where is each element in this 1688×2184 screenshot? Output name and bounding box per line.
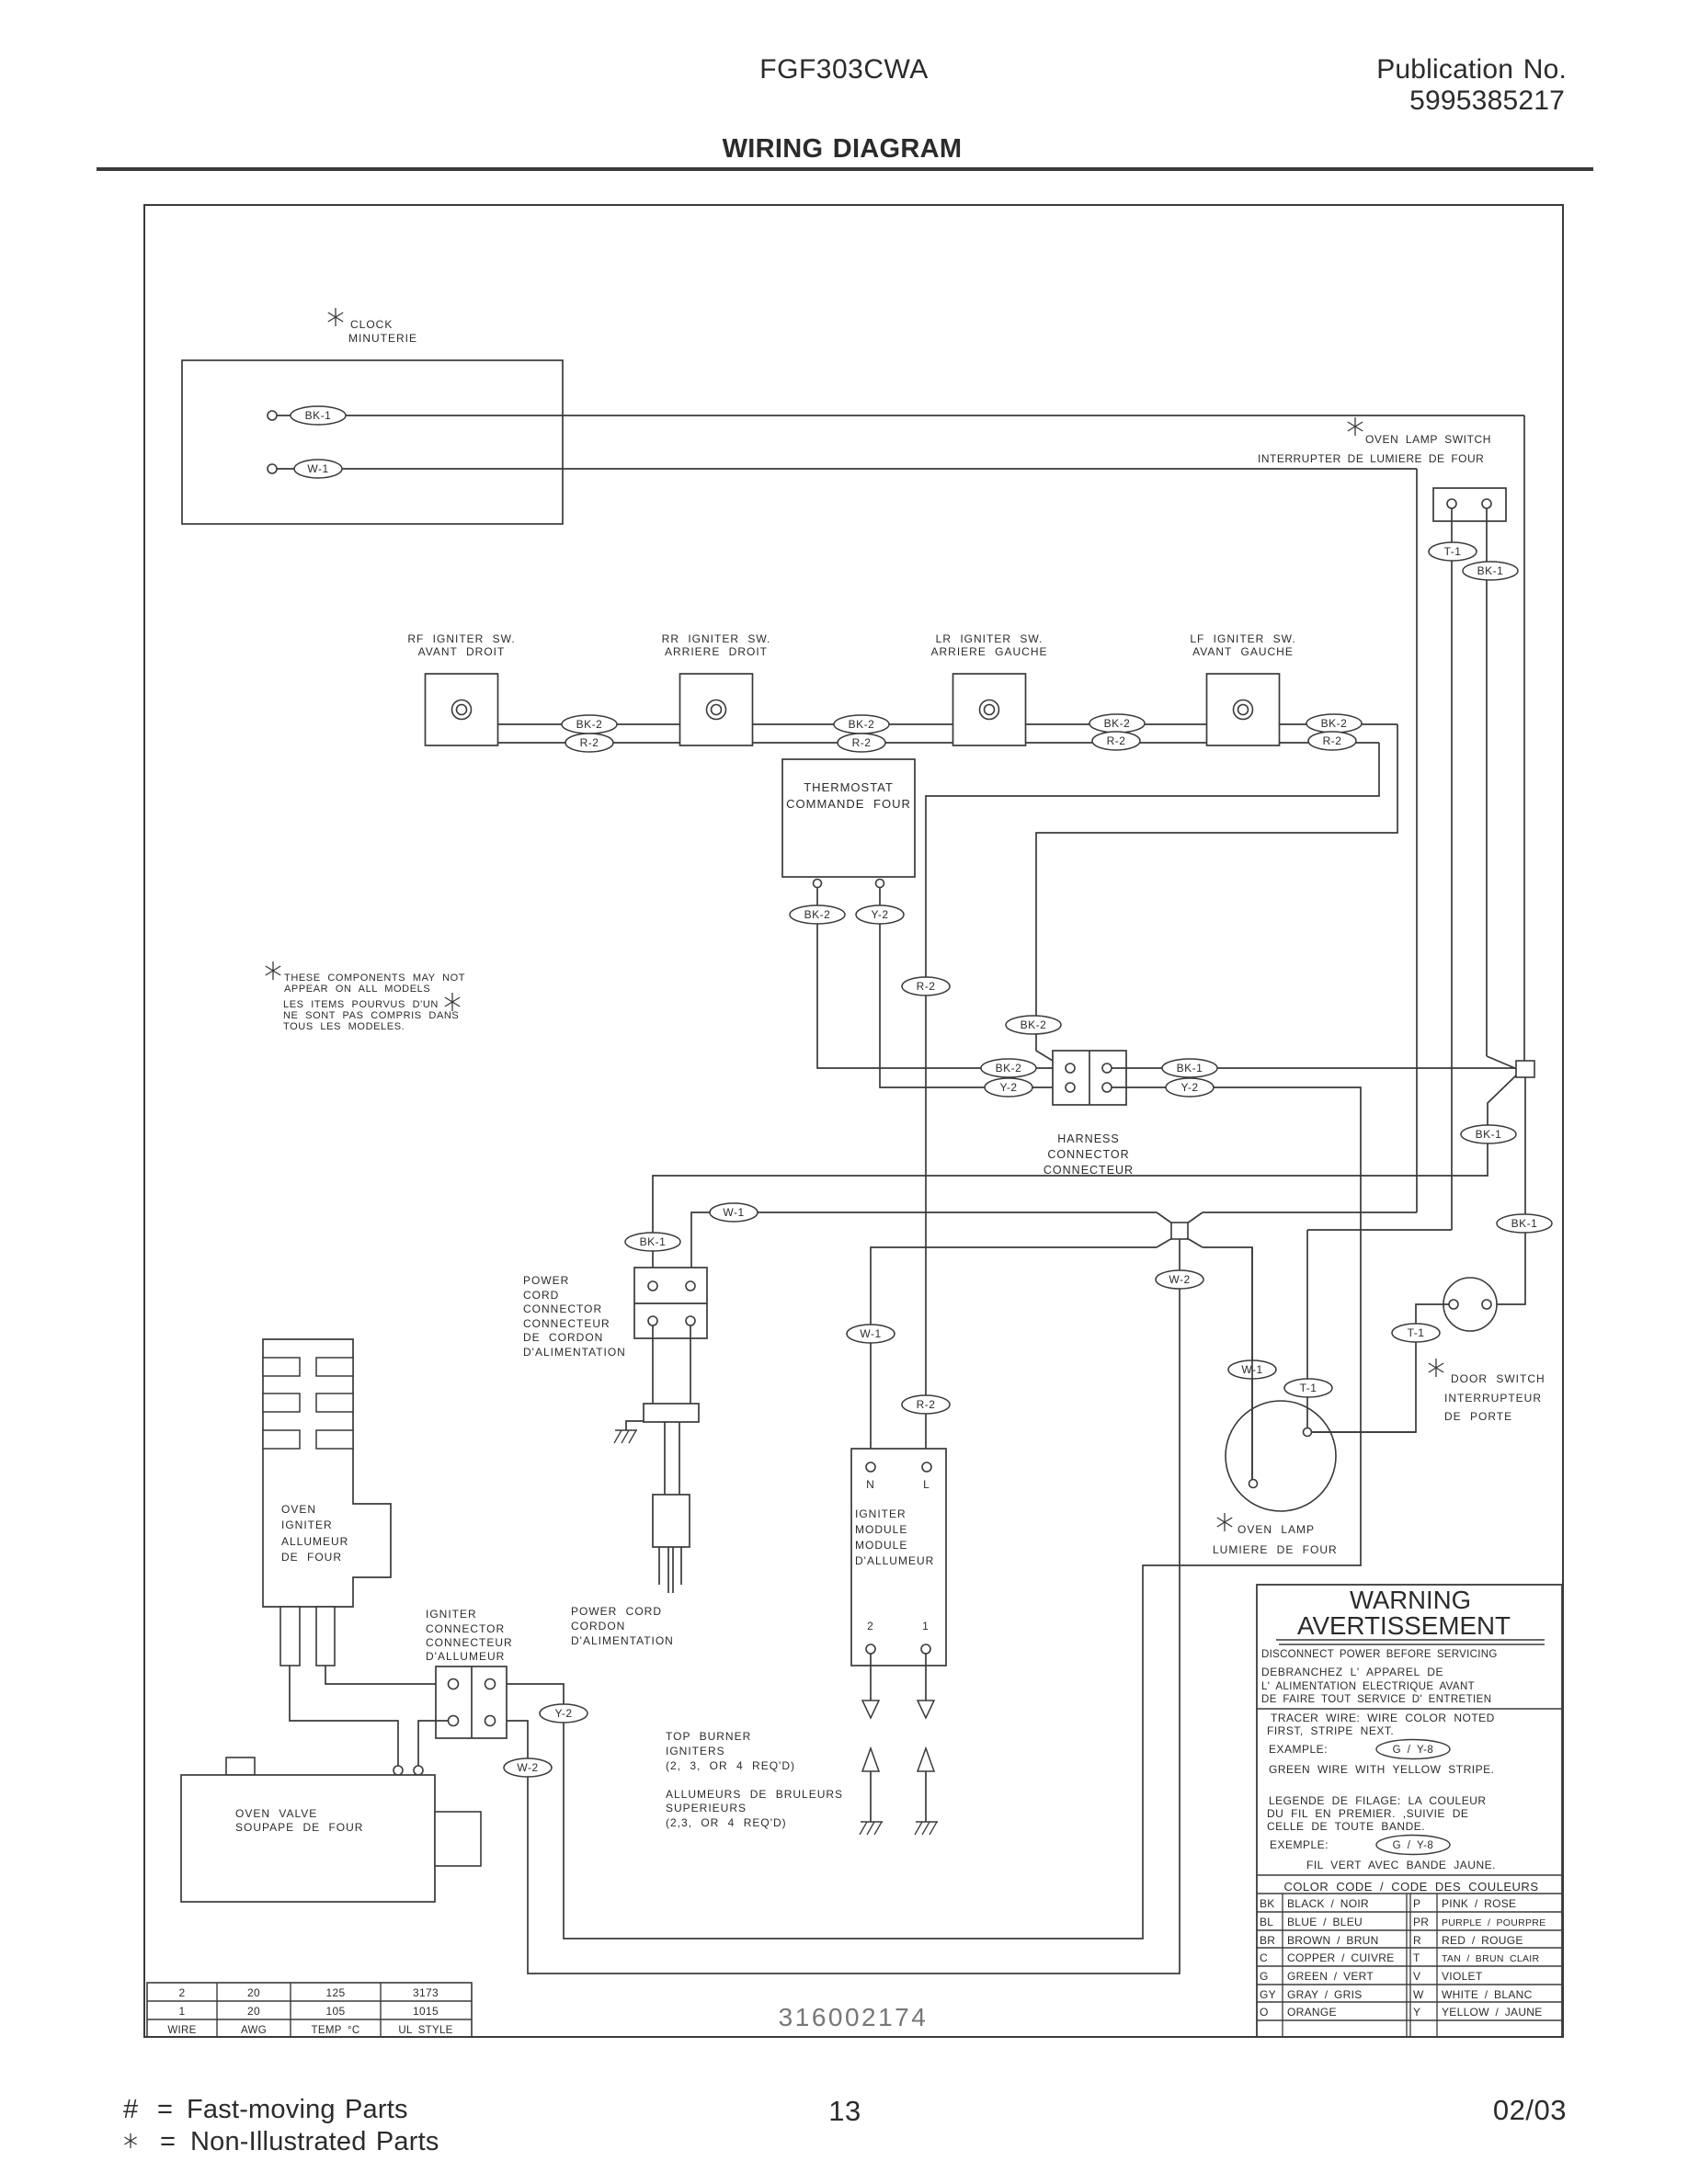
oven igniter terminals [280, 1607, 300, 1666]
svg-text:Y-2: Y-2 [999, 1081, 1017, 1094]
wire label R-2 (RR-LR gap) [838, 734, 885, 752]
svg-text:CONNECTEUR: CONNECTEUR [426, 1636, 513, 1649]
wire BK-1 from clock to junction J2 (top run) [277, 415, 1524, 416]
svg-text:1: 1 [922, 1620, 930, 1632]
svg-text:Fast-moving Parts: Fast-moving Parts [187, 2095, 408, 2124]
svg-text:#: # [123, 2095, 139, 2124]
wire label T-1 (door switch) [1392, 1324, 1440, 1342]
svg-text:5995385217: 5995385217 [1409, 85, 1565, 116]
wire label BK-2 (drop to harness) [1006, 1016, 1061, 1034]
oven lamp terminal left [1251, 1247, 1253, 1480]
wire label BK-2 (RF-RR gap) [562, 715, 617, 734]
power cord grommet [644, 1404, 699, 1422]
svg-text:G / Y-8: G / Y-8 [1393, 1840, 1434, 1851]
svg-text:C: C [1260, 1951, 1268, 1964]
wire W-1 junction J1 to oven lamp [1187, 1238, 1203, 1247]
svg-text:APPEAR ON ALL MODELS: APPEAR ON ALL MODELS [284, 984, 430, 995]
harness connector box [1053, 1051, 1126, 1105]
svg-text:1015: 1015 [413, 2005, 439, 2018]
svg-text:CONNECTOR: CONNECTOR [426, 1622, 505, 1635]
svg-text:INTERRUPTEUR: INTERRUPTEUR [1444, 1392, 1542, 1405]
tracer example oval 1 [1376, 1740, 1450, 1759]
svg-text:SOUPAPE DE FOUR: SOUPAPE DE FOUR [235, 1821, 363, 1834]
svg-text:CONNECTOR: CONNECTOR [1047, 1148, 1129, 1161]
svg-text:P: P [1413, 1897, 1420, 1910]
wire label T-1 (at oven lamp) [1284, 1379, 1332, 1397]
svg-text:02/03: 02/03 [1493, 2094, 1567, 2126]
chassis ground symbol (power cord) [615, 1429, 637, 1431]
wire label BK-2 (thermostat) [790, 905, 845, 924]
svg-text:GREEN WIRE WITH YELLOW STRIPE.: GREEN WIRE WITH YELLOW STRIPE. [1269, 1763, 1494, 1776]
ground lead from grommet [626, 1421, 644, 1430]
igniter switch LR box [953, 674, 1026, 745]
wire label W-1 (clock) [294, 460, 342, 478]
wire BK-2 thermostat to harness connector [817, 888, 1065, 1068]
svg-text:LR IGNITER SW.: LR IGNITER SW. [936, 632, 1044, 645]
wire label R-2 (after LF) [1308, 732, 1356, 750]
svg-text:ALLUMEURS DE BRULEURS: ALLUMEURS DE BRULEURS [666, 1788, 843, 1801]
svg-text:D'ALIMENTATION: D'ALIMENTATION [571, 1634, 674, 1647]
wire T-1 door switch to oven lamp [1312, 1304, 1449, 1432]
svg-text:LF IGNITER SW.: LF IGNITER SW. [1190, 632, 1295, 645]
svg-text:CORDON: CORDON [571, 1620, 625, 1632]
svg-text:FIRST, STRIPE NEXT.: FIRST, STRIPE NEXT. [1267, 1724, 1394, 1737]
svg-text:TEMP °C: TEMP °C [312, 2025, 360, 2036]
svg-text:DE FOUR: DE FOUR [281, 1551, 342, 1564]
svg-text:DE FAIRE TOUT SERVICE D' ENTRE: DE FAIRE TOUT SERVICE D' ENTRETIEN [1261, 1694, 1491, 1705]
svg-text:2: 2 [867, 1620, 874, 1632]
oven lamp bulb [1226, 1401, 1336, 1511]
svg-text:BK-1: BK-1 [640, 1235, 667, 1248]
svg-text:D'ALLUMEUR: D'ALLUMEUR [855, 1554, 934, 1567]
door switch pin right [1482, 1300, 1491, 1309]
harness connector pins [1066, 1064, 1075, 1073]
svg-text:YELLOW / JAUNE: YELLOW / JAUNE [1442, 2006, 1543, 2019]
clock pin W-1 [268, 464, 277, 473]
power cord plug [653, 1495, 690, 1547]
oven valve side port [435, 1812, 481, 1866]
wire oven igniter left terminal to oven valve [290, 1666, 398, 1766]
wire label W-1 (igniter module) [847, 1325, 895, 1343]
svg-text:BK: BK [1260, 1897, 1275, 1910]
svg-text:COMMANDE FOUR: COMMANDE FOUR [786, 797, 911, 811]
svg-text:GY: GY [1260, 1988, 1276, 2001]
color code table header [1257, 1874, 1562, 1876]
svg-text:MODULE: MODULE [855, 1539, 907, 1552]
oven lamp switch label [1348, 417, 1363, 436]
svg-text:WARNING: WARNING [1350, 1586, 1471, 1614]
svg-text:BLUE / BLEU: BLUE / BLEU [1287, 1916, 1363, 1928]
svg-text:BK-2: BK-2 [996, 1062, 1022, 1075]
wire BK-2 chain across igniter switches to harness connector [498, 723, 680, 725]
svg-text:RED / ROUGE: RED / ROUGE [1442, 1934, 1523, 1947]
oven valve box [181, 1775, 435, 1902]
svg-text:BK-2: BK-2 [1021, 1018, 1047, 1031]
svg-text:GREEN / VERT: GREEN / VERT [1287, 1970, 1374, 1983]
svg-text:RF IGNITER SW.: RF IGNITER SW. [407, 632, 515, 645]
svg-text:BK-1: BK-1 [1511, 1217, 1538, 1230]
wire Y-2 harness down and around to igniter connector [495, 1087, 1361, 1939]
wire W-1 junction J1 to igniter module N [1157, 1238, 1172, 1247]
wire W-1 junction J1 to clock drop [1187, 1212, 1203, 1223]
oven lamp switch pin right [1482, 499, 1491, 508]
top burner igniter 1 (arrow up, grounded) [918, 1748, 934, 1771]
wire label BK-2 (LR-LF gap) [1089, 714, 1145, 733]
svg-text:(2, 3, OR 4 REQ'D): (2, 3, OR 4 REQ'D) [666, 1759, 795, 1772]
clock component label [328, 308, 343, 326]
svg-text:PINK / ROSE: PINK / ROSE [1442, 1897, 1516, 1910]
wire label R-2 (LR-LF gap) [1092, 732, 1140, 750]
svg-text:WIRING DIAGRAM: WIRING DIAGRAM [723, 134, 963, 164]
svg-text:LUMIERE DE FOUR: LUMIERE DE FOUR [1213, 1543, 1338, 1556]
svg-text:COPPER / CUIVRE: COPPER / CUIVRE [1287, 1951, 1395, 1964]
svg-text:W-2: W-2 [517, 1761, 538, 1774]
igniter switch LF contact [1234, 700, 1253, 720]
svg-text:THESE COMPONENTS MAY NOT: THESE COMPONENTS MAY NOT [284, 973, 465, 984]
svg-text:D'ALIMENTATION: D'ALIMENTATION [523, 1346, 626, 1359]
svg-text:IGNITER: IGNITER [426, 1608, 477, 1621]
svg-text:TAN / BRUN CLAIR: TAN / BRUN CLAIR [1442, 1953, 1539, 1964]
oven valve terminal right [414, 1766, 423, 1775]
svg-text:Y-2: Y-2 [871, 908, 888, 921]
svg-text:R: R [1413, 1934, 1421, 1947]
wire BK-1 junction J2 down-left to power cord connector [653, 1075, 1516, 1281]
igniter switch RF box [426, 674, 498, 745]
wire W-2 junction J1 down and around to igniter connector [495, 1239, 1180, 1974]
svg-text:R-2: R-2 [1323, 734, 1342, 747]
igniter switch RR contact [707, 700, 726, 720]
svg-text:2: 2 [179, 1986, 186, 1999]
svg-text:DOOR SWITCH: DOOR SWITCH [1451, 1372, 1545, 1385]
svg-text:20: 20 [247, 2005, 260, 2018]
diagram border frame [144, 205, 1563, 2037]
svg-text:L: L [923, 1478, 930, 1491]
door switch body [1443, 1278, 1497, 1331]
svg-text:AVERTISSEMENT: AVERTISSEMENT [1297, 1611, 1511, 1640]
oven lamp switch pin left [1447, 499, 1456, 508]
svg-text:CORD: CORD [523, 1289, 559, 1302]
svg-text:W-1: W-1 [307, 462, 328, 475]
spark output lead 1 with arrow [925, 1654, 927, 1701]
wire label BK-1 (lamp switch) [1463, 562, 1518, 580]
oven valve top boss [226, 1757, 255, 1775]
svg-text:VIOLET: VIOLET [1442, 1970, 1483, 1983]
svg-text:FGF303CWA: FGF303CWA [759, 54, 928, 85]
svg-text:20: 20 [247, 1986, 260, 1999]
svg-text:R-2: R-2 [917, 980, 936, 993]
svg-text:PURPLE / POURPRE: PURPLE / POURPRE [1442, 1917, 1546, 1928]
svg-text:Publication No.: Publication No. [1376, 54, 1567, 85]
svg-text:FIL VERT AVEC BANDE JAUNE.: FIL VERT AVEC BANDE JAUNE. [1306, 1859, 1496, 1871]
svg-text:TOP BURNER: TOP BURNER [666, 1730, 751, 1743]
svg-text:OVEN LAMP SWITCH: OVEN LAMP SWITCH [1365, 433, 1491, 446]
igniter connector pins [449, 1679, 459, 1689]
power cord cable [664, 1422, 666, 1495]
oven lamp switch box [1433, 488, 1506, 521]
svg-text:BLACK / NOIR: BLACK / NOIR [1287, 1897, 1369, 1910]
svg-text:BK-1: BK-1 [305, 409, 332, 422]
svg-text:COLOR CODE / CODE DES COULEURS: COLOR CODE / CODE DES COULEURS [1284, 1880, 1539, 1894]
svg-text:T-1: T-1 [1300, 1382, 1317, 1394]
svg-text:ARRIERE DROIT: ARRIERE DROIT [665, 645, 768, 658]
wire Y-2 thermostat to harness connector [880, 888, 1065, 1087]
svg-text:EXAMPLE:: EXAMPLE: [1269, 1743, 1328, 1756]
svg-text:D'ALLUMEUR: D'ALLUMEUR [426, 1650, 505, 1663]
svg-text:316002174: 316002174 [779, 2003, 929, 2031]
door switch label [1429, 1359, 1443, 1377]
svg-text:DISCONNECT POWER BEFORE SERVIC: DISCONNECT POWER BEFORE SERVICING [1261, 1649, 1498, 1660]
wire oven igniter right terminal to igniter connector [325, 1666, 448, 1684]
wire label BK-1 (door switch) [1497, 1214, 1552, 1233]
wire label BK-1 (to power cord) [625, 1233, 680, 1251]
wire igniter connector to oven valve [418, 1721, 448, 1766]
svg-text:BL: BL [1260, 1916, 1273, 1928]
thermostat box [782, 759, 915, 877]
wire label BK-1 (harness right) [1162, 1059, 1217, 1077]
top burner igniter 2 (arrow up, grounded) [862, 1748, 879, 1771]
note: components may not appear on all models [266, 961, 280, 980]
svg-text:CLOCK: CLOCK [350, 318, 393, 331]
svg-text:INTERRUPTER DE LUMIERE DE FOUR: INTERRUPTER DE LUMIERE DE FOUR [1258, 452, 1484, 465]
svg-text:Y-2: Y-2 [554, 1707, 572, 1720]
wire label BK-2 (into harness pin) [981, 1059, 1036, 1077]
wire label BK-1 (below J2) [1461, 1125, 1516, 1143]
igniter switch LR contact [980, 700, 999, 720]
svg-text:IGNITER: IGNITER [281, 1519, 333, 1531]
svg-text:BR: BR [1260, 1934, 1275, 1947]
svg-text:OVEN: OVEN [281, 1503, 316, 1516]
svg-text:HARNESS: HARNESS [1057, 1132, 1119, 1145]
svg-text:W-2: W-2 [1169, 1273, 1190, 1286]
svg-text:T-1: T-1 [1444, 545, 1462, 558]
svg-text:BK-1: BK-1 [1476, 1128, 1502, 1141]
svg-text:TRACER WIRE: WIRE COLOR NOT: TRACER WIRE: WIRE COLOR NOTED [1271, 1712, 1495, 1724]
svg-text:1: 1 [179, 2005, 186, 2018]
svg-text:T: T [1413, 1951, 1420, 1964]
power cord leads [652, 1325, 654, 1404]
svg-text:ARRIERE GAUCHE: ARRIERE GAUCHE [930, 645, 1047, 658]
svg-text:BK-2: BK-2 [576, 718, 603, 731]
svg-text:BK-1: BK-1 [1177, 1062, 1203, 1075]
svg-text:CELLE DE TOUTE BANDE.: CELLE DE TOUTE BANDE. [1267, 1820, 1425, 1833]
wire label R-2 (igniter module) [902, 1395, 950, 1414]
wire label T-1 (lamp switch) [1429, 542, 1477, 561]
svg-text:WIRE: WIRE [167, 2025, 196, 2036]
svg-text:BK-1: BK-1 [1477, 564, 1504, 577]
oven igniter slots [263, 1358, 300, 1376]
svg-text:R-2: R-2 [1107, 734, 1126, 747]
wire label R-2 (long drop) [902, 977, 950, 995]
igniter switch RR box [680, 674, 753, 745]
svg-text:W-1: W-1 [723, 1206, 744, 1219]
svg-text:EXEMPLE:: EXEMPLE: [1270, 1838, 1329, 1851]
wire spec table [147, 1983, 472, 2037]
door switch pin left [1449, 1300, 1458, 1309]
thermostat pin right [876, 880, 884, 888]
svg-text:IGNITERS: IGNITERS [666, 1745, 725, 1757]
oven igniter body [263, 1339, 391, 1607]
svg-text:LEGENDE DE FILAGE: LA COULE: LEGENDE DE FILAGE: LA COULEUR [1269, 1794, 1487, 1807]
junction J1 splice block [1171, 1223, 1188, 1239]
svg-text:Y: Y [1413, 2006, 1420, 2019]
wire label Y-2 (thermostat) [856, 905, 904, 924]
svg-text:THERMOSTAT: THERMOSTAT [804, 780, 894, 794]
power cord connector pins [648, 1281, 657, 1291]
svg-text:DE PORTE: DE PORTE [1444, 1410, 1512, 1423]
svg-text:ORANGE: ORANGE [1287, 2006, 1337, 2019]
wire label W-1 (power cord side) [710, 1203, 758, 1222]
svg-text:NE SONT PAS COMPRIS DANS: NE SONT PAS COMPRIS DANS [283, 1010, 459, 1021]
svg-text:125: 125 [326, 1986, 346, 1999]
svg-text:V: V [1413, 1970, 1420, 1983]
footer non-illustrated parts legend [124, 2133, 136, 2148]
svg-text:OVEN LAMP: OVEN LAMP [1237, 1523, 1315, 1536]
svg-text:ALLUMEUR: ALLUMEUR [281, 1535, 348, 1548]
oven valve terminal left [393, 1766, 403, 1775]
clock box [182, 360, 563, 524]
igniter module box [851, 1449, 946, 1666]
svg-text:CONNECTEUR: CONNECTEUR [523, 1317, 610, 1330]
svg-text:RR IGNITER SW.: RR IGNITER SW. [662, 632, 771, 645]
svg-text:AWG: AWG [241, 2025, 267, 2036]
svg-text:R-2: R-2 [852, 736, 872, 749]
wire T-1 inside lamp [1312, 1431, 1416, 1433]
wire BK-1 from lamp switch to junction J2 [1486, 508, 1488, 1056]
svg-text:DU FIL EN PREMIER. ,SUIVIE: DU FIL EN PREMIER. ,SUIVIE DE [1267, 1807, 1468, 1820]
svg-text:W-1: W-1 [860, 1327, 881, 1340]
oven lamp label [1217, 1513, 1232, 1531]
svg-text:T-1: T-1 [1408, 1326, 1425, 1339]
junction J2 splice block [1516, 1061, 1534, 1077]
svg-text:CONNECTOR: CONNECTOR [523, 1302, 602, 1315]
svg-text:Y-2: Y-2 [1180, 1081, 1198, 1094]
tracer example oval 2 [1376, 1836, 1450, 1855]
svg-text:TOUS LES MODELES.: TOUS LES MODELES. [283, 1021, 405, 1032]
svg-text:W: W [1413, 1988, 1424, 2001]
wire T-1 from lamp switch down to oven lamp [1451, 508, 1453, 1230]
wire R-2 chain across igniter switches to igniter module [498, 742, 680, 744]
igniter switch RF contact [452, 700, 472, 720]
svg-text:(2,3, OR 4 REQ'D): (2,3, OR 4 REQ'D) [666, 1816, 787, 1829]
svg-text:R-2: R-2 [917, 1398, 936, 1411]
warning box frame [1257, 1585, 1562, 2037]
igniter module pin N [866, 1462, 875, 1472]
power cord connector box [634, 1268, 707, 1338]
svg-text:BROWN / BRUN: BROWN / BRUN [1287, 1934, 1379, 1947]
svg-text:MODULE: MODULE [855, 1523, 907, 1536]
power cord plug pins [658, 1547, 660, 1585]
svg-text:GRAY / GRIS: GRAY / GRIS [1287, 1988, 1363, 2001]
svg-text:L' ALIMENTATION ELECTRIQUE AVA: L' ALIMENTATION ELECTRIQUE AVANT [1261, 1681, 1475, 1692]
svg-text:OVEN VALVE: OVEN VALVE [235, 1807, 317, 1820]
warning divider [1257, 1708, 1562, 1710]
svg-text:UL STYLE: UL STYLE [398, 2025, 452, 2036]
svg-text:AVANT DROIT: AVANT DROIT [418, 645, 506, 658]
svg-text:G: G [1260, 1970, 1269, 1983]
thermostat pin left [814, 880, 822, 888]
wire BK-1 harness to junction J2 [1112, 1067, 1516, 1069]
svg-text:Non-Illustrated Parts: Non-Illustrated Parts [190, 2127, 439, 2156]
wire label BK-2 (after LF) [1306, 714, 1362, 733]
svg-text:G / Y-8: G / Y-8 [1393, 1745, 1434, 1756]
svg-text:O: O [1260, 2006, 1269, 2019]
wire label W-2 (left side) [504, 1758, 552, 1777]
wire label Y-2 (igniter connector) [540, 1704, 587, 1723]
svg-text:LES ITEMS POURVUS D'UN: LES ITEMS POURVUS D'UN [283, 999, 439, 1010]
svg-text:CONNECTEUR: CONNECTEUR [1044, 1164, 1134, 1177]
svg-text:DEBRANCHEZ L' APPAREL DE: DEBRANCHEZ L' APPAREL DE [1261, 1666, 1443, 1678]
wire label W-2 (below J1) [1156, 1270, 1203, 1289]
igniter switch LF box [1207, 674, 1280, 745]
svg-text:POWER: POWER [523, 1274, 569, 1287]
svg-text:BK-2: BK-2 [804, 908, 831, 921]
svg-text:R-2: R-2 [580, 736, 599, 749]
wire BK-1 junction J2 down to door switch [1493, 1077, 1525, 1304]
svg-text:13: 13 [828, 2095, 861, 2127]
wire label BK-1 (clock) [291, 406, 346, 425]
spark output lead 2 with arrow [870, 1654, 872, 1701]
title rule [97, 167, 1593, 171]
wire label W-1 (oven lamp) [1228, 1360, 1276, 1379]
wire W-1 from clock (top run, down right side) [277, 468, 1417, 470]
svg-text:BK-2: BK-2 [1321, 717, 1348, 730]
igniter module pin L [922, 1462, 931, 1472]
note asterisk (french) [445, 993, 460, 1011]
igniter connector box [436, 1666, 507, 1738]
wire label Y-2 (into harness pin) [985, 1078, 1032, 1097]
wire label R-2 (RF-RR gap) [565, 734, 613, 752]
svg-text:WHITE / BLANC: WHITE / BLANC [1442, 1988, 1533, 2001]
wire label Y-2 (harness right) [1166, 1078, 1214, 1097]
oven lamp terminal right [1304, 1428, 1312, 1437]
svg-text:SUPERIEURS: SUPERIEURS [666, 1802, 747, 1814]
svg-text:3173: 3173 [413, 1986, 439, 1999]
svg-text:MINUTERIE: MINUTERIE [348, 332, 417, 345]
svg-text:POWER CORD: POWER CORD [571, 1605, 662, 1618]
wire label BK-2 (RR-LR gap) [834, 715, 889, 734]
svg-text:PR: PR [1413, 1916, 1429, 1928]
svg-text:=: = [160, 2127, 176, 2156]
svg-text:IGNITER: IGNITER [855, 1507, 907, 1520]
svg-text:BK-2: BK-2 [1104, 717, 1131, 730]
svg-text:BK-2: BK-2 [849, 718, 875, 731]
svg-text:DE CORDON: DE CORDON [523, 1331, 603, 1344]
clock pin BK-1 [268, 411, 277, 420]
svg-text:AVANT GAUCHE: AVANT GAUCHE [1192, 645, 1294, 658]
wire W-1 run to junction J1 [691, 1212, 1157, 1281]
svg-text:=: = [157, 2095, 173, 2124]
svg-text:N: N [866, 1478, 875, 1491]
svg-text:105: 105 [326, 2005, 346, 2018]
color code table grid [1257, 1893, 1562, 1894]
